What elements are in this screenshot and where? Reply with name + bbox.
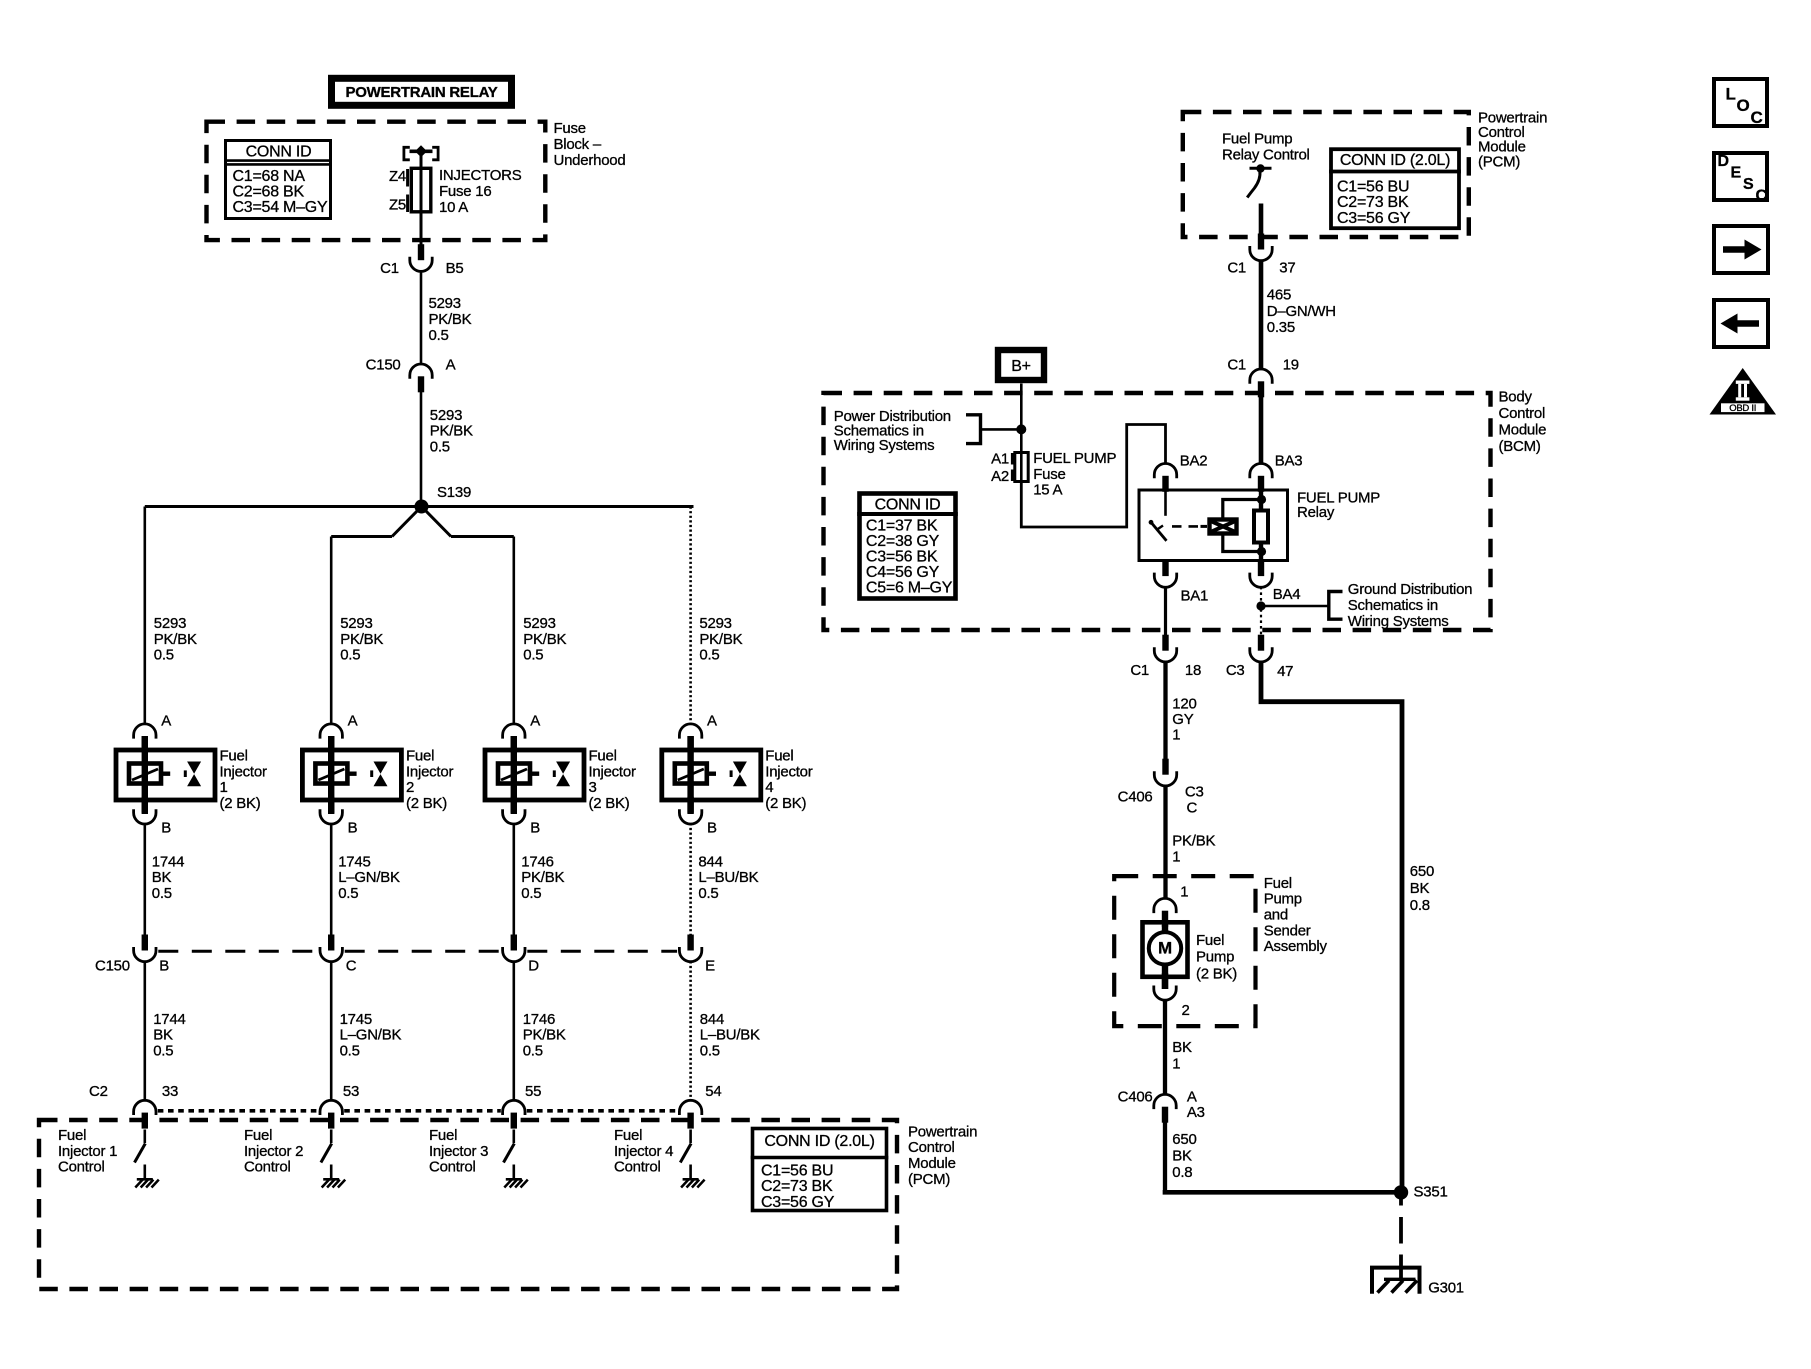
relay coil	[1201, 520, 1237, 534]
svg-text:0.8: 0.8	[1172, 1164, 1192, 1181]
svg-text:Body: Body	[1499, 389, 1533, 406]
svg-text:Powertrain: Powertrain	[908, 1123, 977, 1140]
svg-text:CONN ID (2.0L): CONN ID (2.0L)	[1340, 152, 1450, 169]
svg-text:Injector 3: Injector 3	[429, 1143, 488, 1160]
svg-text:Control: Control	[1499, 405, 1546, 422]
svg-text:120: 120	[1172, 696, 1196, 713]
driver switch Fuel Injector 4 Control	[680, 1130, 691, 1180]
wire 1746 (injector 3 to C150)	[514, 823, 565, 936]
svg-text:BK: BK	[153, 1027, 173, 1044]
connector BA2	[1154, 453, 1207, 492]
svg-text:FUEL PUMP: FUEL PUMP	[1033, 450, 1116, 467]
connector C2 pin 54	[679, 1083, 721, 1129]
svg-text:PK/BK: PK/BK	[154, 631, 197, 648]
Powertrain Control Module dashed box (top right)	[1183, 112, 1469, 237]
svg-text:5293: 5293	[429, 295, 461, 312]
svg-text:0.5: 0.5	[338, 885, 358, 902]
svg-text:1745: 1745	[340, 1011, 372, 1028]
junction node relay top	[1257, 495, 1266, 504]
svg-text:0.5: 0.5	[153, 1042, 173, 1059]
svg-text:Fuel: Fuel	[429, 1127, 457, 1144]
fuel injector 4	[662, 736, 761, 814]
svg-text:BA1: BA1	[1181, 588, 1209, 605]
icon arrow next	[1714, 226, 1768, 273]
fuel pump motor	[1143, 922, 1188, 989]
svg-text:B: B	[348, 820, 358, 837]
connector C1 pin B5	[410, 244, 432, 271]
svg-text:B: B	[530, 820, 540, 837]
CONN ID table (Fuse Block)	[224, 141, 332, 219]
label Powertrain Control Module (PCM) top right	[1478, 110, 1547, 171]
svg-text:3: 3	[589, 779, 597, 796]
wire C1-19 to BA3	[1259, 397, 1264, 464]
bracket ground distribution	[1329, 592, 1343, 620]
svg-text:C3=56 GY: C3=56 GY	[1337, 210, 1411, 227]
driver switch Fuel Injector 1 Control	[135, 1130, 146, 1180]
wire BK 1	[1165, 1000, 1192, 1094]
svg-text:G301: G301	[1428, 1279, 1464, 1296]
connector C150 pin B	[134, 935, 170, 975]
connector pin B (fuel injector 2)	[320, 797, 358, 837]
svg-text:PK/BK: PK/BK	[430, 423, 473, 440]
svg-text:Fuel: Fuel	[589, 748, 617, 765]
svg-text:0.5: 0.5	[340, 647, 360, 664]
svg-text:C150: C150	[95, 958, 130, 975]
svg-text:Fuel: Fuel	[58, 1127, 86, 1144]
wire 844 (C150 to PCM C2)	[691, 961, 760, 1100]
wire 465 D-GN/WH 0.35	[1261, 260, 1336, 368]
svg-text:0.5: 0.5	[699, 647, 719, 664]
connector C406 pin A/A3	[1118, 1089, 1205, 1123]
svg-text:CONN ID: CONN ID	[246, 144, 312, 161]
svg-text:PK/BK: PK/BK	[523, 631, 566, 648]
Powertrain Control Module dashed box	[39, 1120, 897, 1289]
wire 1744 (C150 to PCM C2)	[145, 961, 186, 1100]
svg-text:POWERTRAIN RELAY: POWERTRAIN RELAY	[345, 84, 497, 101]
CONN ID table (BCM)	[857, 494, 958, 599]
label Fuel Injector 3 Control	[429, 1127, 488, 1176]
svg-text:S139: S139	[437, 484, 471, 501]
wire bottom run to S351	[1165, 1190, 1401, 1192]
svg-text:PK/BK: PK/BK	[429, 311, 472, 328]
svg-text:D–GN/WH: D–GN/WH	[1267, 303, 1336, 320]
svg-text:Fuel: Fuel	[1264, 875, 1292, 892]
svg-text:A: A	[348, 713, 358, 730]
svg-text:650: 650	[1410, 863, 1434, 880]
svg-text:1746: 1746	[523, 1011, 555, 1028]
svg-text:C3=56 BK: C3=56 BK	[866, 549, 938, 566]
label Power Distribution Schematics in Wiring Systems	[834, 408, 951, 454]
svg-text:PK/BK: PK/BK	[521, 869, 564, 886]
svg-text:Injector: Injector	[765, 763, 812, 780]
svg-text:Assembly: Assembly	[1264, 938, 1328, 955]
svg-text:A3: A3	[1187, 1104, 1205, 1121]
svg-text:C4=56 GY: C4=56 GY	[866, 564, 940, 581]
svg-text:Underhood: Underhood	[554, 152, 626, 169]
svg-text:C1=37 BK: C1=37 BK	[866, 518, 938, 535]
svg-text:Control: Control	[908, 1139, 955, 1156]
svg-text:465: 465	[1267, 287, 1291, 304]
svg-text:1745: 1745	[338, 853, 370, 870]
svg-text:Wiring Systems: Wiring Systems	[834, 437, 935, 454]
fuse FUEL PUMP 15A	[1012, 453, 1028, 482]
svg-text:S351: S351	[1414, 1184, 1448, 1201]
wire bracket to junction	[981, 428, 1022, 431]
svg-text:C3=54 M–GY: C3=54 M–GY	[233, 199, 328, 216]
svg-text:Fuse: Fuse	[1033, 466, 1065, 483]
icon LOC	[1714, 79, 1767, 127]
wire 5293 PK/BK 0.5 branch to injector 3	[514, 537, 567, 725]
label Body Control Module (BCM)	[1499, 389, 1547, 456]
label box POWERTRAIN RELAY	[332, 78, 512, 105]
svg-text:INJECTORS: INJECTORS	[439, 167, 522, 184]
svg-text:L–GN/BK: L–GN/BK	[340, 1027, 402, 1044]
label Fuse Block - Underhood	[554, 120, 626, 169]
connector pin B (fuel injector 4)	[679, 797, 717, 837]
svg-text:C1=68 NA: C1=68 NA	[233, 168, 306, 185]
svg-text:5293: 5293	[154, 615, 186, 632]
wire fuse to BA2 (down, right, up, right)	[1021, 425, 1165, 528]
connector C2 pin 53	[320, 1083, 359, 1129]
connector C150 dashed gang line	[158, 950, 677, 953]
svg-text:Injector 4: Injector 4	[614, 1143, 673, 1160]
svg-text:0.5: 0.5	[154, 647, 174, 664]
svg-text:C1: C1	[1130, 662, 1149, 679]
CONN ID (2.0L) table (PCM bottom)	[751, 1129, 889, 1211]
label FUEL PUMP Fuse 15 A	[1033, 450, 1116, 498]
wire S351 to G301 dashed	[1399, 1199, 1403, 1280]
svg-text:BA2: BA2	[1180, 453, 1208, 470]
driver switch Fuel Injector 3 Control	[504, 1130, 515, 1180]
svg-text:Ground Distribution: Ground Distribution	[1348, 581, 1472, 598]
label Fuel Injector 2 (2 BK)	[406, 748, 453, 812]
svg-text:4: 4	[765, 779, 773, 796]
svg-text:10 A: 10 A	[439, 199, 468, 216]
connector pin A (fuel injector 4)	[679, 713, 717, 753]
ground (inside PCM, injector 4)	[681, 1179, 705, 1187]
svg-text:54: 54	[705, 1083, 721, 1100]
wire branch diagonal right	[422, 507, 452, 537]
label Fuel Pump and Sender Assembly	[1264, 875, 1328, 955]
svg-text:(2 BK): (2 BK)	[589, 795, 630, 812]
wire relay control to C1	[1259, 204, 1264, 239]
svg-text:844: 844	[700, 1011, 724, 1028]
svg-text:A: A	[1187, 1089, 1197, 1106]
svg-text:15 A: 15 A	[1033, 482, 1062, 499]
connector C1 pin 37	[1227, 234, 1295, 277]
icon DESC	[1714, 153, 1768, 205]
connector pump pin 1	[1154, 883, 1188, 926]
svg-text:(2 BK): (2 BK)	[1196, 965, 1237, 982]
svg-text:L–BU/BK: L–BU/BK	[700, 1027, 760, 1044]
svg-text:0.5: 0.5	[521, 885, 541, 902]
connector pin A (fuel injector 1)	[134, 713, 172, 753]
label FUEL PUMP Relay	[1297, 489, 1380, 521]
svg-text:53: 53	[343, 1083, 359, 1100]
svg-text:(2 BK): (2 BK)	[220, 795, 261, 812]
connector C3 pin 47	[1226, 635, 1293, 680]
connector pin A (fuel injector 2)	[320, 713, 358, 753]
wire 5293 PK/BK 0.5 branch to injector 4	[691, 507, 743, 725]
svg-text:5293: 5293	[699, 615, 731, 632]
svg-text:Fuel Pump: Fuel Pump	[1222, 131, 1292, 148]
svg-text:Fuse 16: Fuse 16	[439, 183, 491, 200]
connector C2 dotted gang line	[158, 1109, 678, 1113]
svg-text:D: D	[1718, 153, 1729, 170]
relay coil bus to resistor	[1223, 500, 1262, 552]
svg-text:Relay Control: Relay Control	[1222, 147, 1310, 164]
svg-text:B: B	[159, 958, 169, 975]
connector BA1	[1154, 560, 1208, 605]
svg-text:0.5: 0.5	[430, 438, 450, 455]
svg-text:B5: B5	[446, 260, 464, 277]
wire BA4 to C3-47 dotted	[1260, 587, 1262, 640]
svg-text:1744: 1744	[153, 1011, 185, 1028]
icon OBD II	[1710, 368, 1777, 415]
relay switch contact	[1149, 490, 1167, 541]
wire 5293 PK/BK 0.5 branch to injector 2	[331, 537, 383, 725]
wire 1744 (injector 1 to C150)	[145, 823, 184, 936]
icon arrow back	[1714, 300, 1768, 347]
label Fuel Injector 3 (2 BK)	[589, 748, 636, 812]
svg-text:Control: Control	[614, 1159, 661, 1176]
splice S351	[1394, 1184, 1448, 1201]
ground (inside PCM, injector 1)	[135, 1179, 159, 1187]
svg-text:Control: Control	[429, 1159, 476, 1176]
driver switch Fuel Injector 2 Control	[321, 1130, 332, 1180]
svg-text:C: C	[346, 958, 357, 975]
svg-text:BK: BK	[1172, 1039, 1192, 1056]
svg-text:1744: 1744	[152, 853, 184, 870]
wire PK/BK 1	[1166, 785, 1216, 898]
svg-text:Z5: Z5	[389, 196, 406, 213]
wire 5293 PK/BK 0.5 (C1 to C150)	[421, 271, 472, 364]
svg-text:650: 650	[1172, 1131, 1196, 1148]
wire splice bus horizontal	[145, 505, 694, 508]
svg-text:Pump: Pump	[1264, 891, 1302, 908]
svg-text:37: 37	[1279, 259, 1295, 276]
wire branch diagonal left	[392, 507, 422, 537]
label Fuel Injector 4 Control	[614, 1127, 673, 1176]
svg-text:C1=56 BU: C1=56 BU	[1337, 178, 1409, 195]
svg-text:C2=73 BK: C2=73 BK	[761, 1178, 833, 1195]
svg-text:0.5: 0.5	[698, 885, 718, 902]
wire 120 GY 1	[1166, 661, 1197, 759]
svg-text:Pump: Pump	[1196, 949, 1234, 966]
connector C1 pin 18	[1130, 635, 1201, 679]
svg-text:18: 18	[1185, 662, 1201, 679]
svg-text:Injector: Injector	[406, 763, 453, 780]
svg-text:A: A	[707, 713, 717, 730]
svg-text:BA3: BA3	[1275, 453, 1303, 470]
B+ feed box	[998, 350, 1044, 380]
connector C2 pin 55	[503, 1083, 542, 1129]
ground G301	[1372, 1268, 1464, 1297]
svg-text:C3: C3	[1185, 783, 1204, 800]
label Powertrain Control Module (PCM)	[908, 1123, 977, 1188]
svg-text:Fuel: Fuel	[1196, 932, 1224, 949]
driver switch Fuel Pump Relay Control	[1247, 164, 1271, 197]
svg-text:C5=6 M–GY: C5=6 M–GY	[866, 580, 953, 597]
splice S139	[415, 484, 472, 514]
svg-text:1: 1	[1172, 1056, 1180, 1073]
svg-text:BK: BK	[1410, 880, 1430, 897]
svg-text:E: E	[705, 958, 715, 975]
svg-text:C1: C1	[380, 260, 399, 277]
connector C150 pin E	[679, 935, 715, 975]
svg-text:844: 844	[698, 853, 722, 870]
svg-text:OBD II: OBD II	[1729, 403, 1756, 414]
svg-text:1: 1	[1172, 727, 1180, 744]
connector C2 pin 33	[134, 1083, 178, 1129]
svg-text:Sender: Sender	[1264, 922, 1311, 939]
svg-text:Injector 1: Injector 1	[58, 1143, 117, 1160]
svg-text:CONN ID: CONN ID	[875, 497, 941, 514]
svg-text:Schematics in: Schematics in	[1348, 597, 1438, 614]
ground (inside PCM, injector 3)	[504, 1179, 528, 1187]
wire BA1 to C1-18	[1164, 587, 1167, 643]
svg-text:C1: C1	[1227, 357, 1246, 374]
svg-text:PK/BK: PK/BK	[1172, 832, 1215, 849]
svg-text:1: 1	[220, 779, 228, 796]
connector C406 pin C3/C	[1118, 759, 1204, 817]
svg-text:C3=56 GY: C3=56 GY	[761, 1194, 835, 1211]
fuel injector 3	[485, 736, 584, 814]
svg-text:Injector 2: Injector 2	[244, 1143, 303, 1160]
svg-text:C2: C2	[89, 1083, 108, 1100]
svg-text:A: A	[161, 713, 171, 730]
svg-text:BA4: BA4	[1273, 586, 1301, 603]
svg-text:C150: C150	[366, 356, 401, 373]
svg-text:L–BU/BK: L–BU/BK	[698, 869, 758, 886]
label INJECTORS Fuse 16 10 A	[439, 167, 522, 216]
svg-text:Fuel: Fuel	[765, 748, 793, 765]
svg-text:Fuel: Fuel	[614, 1127, 642, 1144]
svg-text:C406: C406	[1118, 1089, 1153, 1106]
svg-text:Fuse: Fuse	[554, 120, 586, 137]
fuel injector 2	[302, 736, 401, 814]
wire 1745 (injector 2 to C150)	[331, 823, 400, 936]
svg-text:Block –: Block –	[554, 136, 602, 153]
Body Control Module dashed box	[824, 393, 1491, 630]
connector BA3	[1250, 453, 1303, 492]
connector pin B (fuel injector 3)	[503, 797, 541, 837]
svg-text:Fuel: Fuel	[406, 748, 434, 765]
svg-text:A2: A2	[991, 468, 1009, 485]
svg-text:C1=56 BU: C1=56 BU	[761, 1162, 833, 1179]
wire bus to fuse	[420, 151, 423, 169]
svg-text:0.5: 0.5	[700, 1042, 720, 1059]
wire 650 BK 0.8 (pump to S351)	[1165, 1123, 1197, 1191]
svg-text:PK/BK: PK/BK	[340, 631, 383, 648]
wire branch horizontal to col2	[331, 535, 392, 538]
wire 5293 PK/BK 0.5 branch to injector 1	[145, 507, 197, 725]
svg-text:S: S	[1743, 176, 1754, 193]
wire BA4 junction to bracket	[1261, 605, 1328, 608]
label Fuel Injector 1 Control	[58, 1127, 117, 1176]
svg-text:0.5: 0.5	[340, 1042, 360, 1059]
svg-text:33: 33	[162, 1083, 178, 1100]
svg-text:0.8: 0.8	[1410, 897, 1430, 914]
wire branch horizontal to col3	[451, 535, 514, 538]
junction node (B+ / fuse)	[1016, 424, 1026, 434]
svg-text:O: O	[1737, 96, 1750, 115]
label Fuel Pump (2 BK)	[1196, 932, 1237, 982]
svg-text:C2=73 BK: C2=73 BK	[1337, 194, 1409, 211]
svg-text:0.5: 0.5	[429, 327, 449, 344]
svg-text:Wiring Systems: Wiring Systems	[1348, 613, 1449, 630]
fuel injector 1	[116, 736, 215, 814]
svg-text:Module: Module	[1499, 422, 1547, 439]
junction node BA4 ground spur	[1256, 601, 1265, 610]
svg-text:Fuel: Fuel	[244, 1127, 272, 1144]
svg-text:0.5: 0.5	[523, 647, 543, 664]
connector C150 pin C	[320, 935, 357, 975]
Fuel Pump and Sender Assembly dashed box	[1114, 876, 1255, 1026]
svg-text:and: and	[1264, 907, 1288, 924]
connector C150 pin A	[410, 364, 432, 392]
svg-text:D: D	[528, 958, 539, 975]
wire 1745 (C150 to PCM C2)	[331, 961, 401, 1100]
CONN ID (2.0L) table (PCM top right)	[1329, 149, 1461, 228]
svg-text:0.5: 0.5	[152, 885, 172, 902]
svg-text:CONN ID (2.0L): CONN ID (2.0L)	[764, 1133, 874, 1150]
svg-text:L–GN/BK: L–GN/BK	[338, 869, 400, 886]
svg-text:47: 47	[1277, 663, 1293, 680]
bus bar feed node	[404, 145, 438, 160]
label Fuel Injector 2 Control	[244, 1127, 303, 1176]
svg-text:(2 BK): (2 BK)	[765, 795, 806, 812]
svg-text:GY: GY	[1172, 711, 1193, 728]
FUEL PUMP Relay box	[1139, 490, 1288, 561]
svg-text:1746: 1746	[521, 853, 553, 870]
relay resistor	[1254, 490, 1268, 561]
label Ground Distribution Schematics in Wiring Systems	[1348, 581, 1472, 630]
svg-text:B+: B+	[1011, 358, 1031, 375]
wire 650 BK 0.8 (C3-47 to S351)	[1261, 661, 1434, 1190]
svg-text:1: 1	[1172, 848, 1180, 865]
svg-text:(2 BK): (2 BK)	[406, 795, 447, 812]
svg-text:0.5: 0.5	[523, 1042, 543, 1059]
svg-text:B: B	[161, 820, 171, 837]
svg-text:C406: C406	[1118, 789, 1153, 806]
connector pin B (fuel injector 1)	[134, 797, 172, 837]
ground (inside PCM, injector 2)	[322, 1179, 346, 1187]
svg-text:A: A	[530, 713, 540, 730]
svg-text:C: C	[1756, 187, 1768, 204]
svg-text:C: C	[1751, 108, 1763, 127]
svg-text:5293: 5293	[430, 407, 462, 424]
svg-text:0.35: 0.35	[1267, 319, 1295, 336]
svg-text:A: A	[446, 356, 456, 373]
svg-text:55: 55	[525, 1083, 541, 1100]
svg-text:(PCM): (PCM)	[908, 1171, 950, 1188]
connector pin A (fuel injector 3)	[503, 713, 541, 753]
svg-text:C2=68 BK: C2=68 BK	[233, 184, 305, 201]
svg-text:L: L	[1726, 85, 1736, 104]
svg-text:C3: C3	[1226, 662, 1245, 679]
svg-text:Injector: Injector	[589, 763, 636, 780]
connector C150 pin D	[503, 935, 540, 975]
bracket power distribution	[966, 415, 981, 444]
wire fuse to C1	[420, 212, 423, 245]
connector C1 pin 19	[1227, 357, 1299, 398]
svg-text:C: C	[1187, 800, 1198, 817]
svg-text:Fuel: Fuel	[220, 748, 248, 765]
wire 5293 PK/BK 0.5 (C150 to S139)	[421, 392, 473, 503]
wire 1746 (C150 to PCM C2)	[514, 961, 566, 1100]
connector BA4	[1250, 560, 1301, 603]
